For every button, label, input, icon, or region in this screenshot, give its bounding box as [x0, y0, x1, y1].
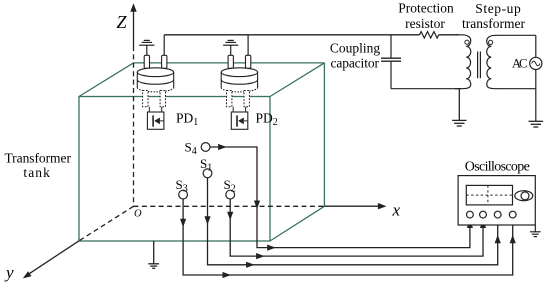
resistor R (protection) [420, 32, 439, 38]
wire: capacitor bottom lead [390, 62, 392, 89]
leg 2 of B1 (dotted) [160, 91, 165, 107]
oscilloscope screen [466, 185, 512, 205]
wire: capacitor top lead [390, 35, 392, 58]
leg 2 of B2 (dotted) [244, 91, 249, 107]
pin 2 of B2 [246, 55, 251, 68]
svg-text:Coupling: Coupling [330, 41, 381, 56]
svg-text:Oscilloscope: Oscilloscope [465, 160, 530, 175]
leg 1 of B2 (dotted) [227, 91, 232, 107]
primary winding [455, 35, 471, 47]
sensor S2 [226, 190, 235, 199]
ground (oscilloscope) [530, 232, 541, 237]
polarity dot primary [465, 40, 469, 44]
bushing B1 [137, 40, 173, 129]
wire: legs to PD2 box [232, 107, 234, 112]
wire: oscilloscope to ground [534, 225, 536, 232]
svg-text:Z: Z [117, 12, 128, 32]
pin 1 of B2 [228, 55, 233, 68]
tank ground [148, 241, 159, 268]
PD source PD1 [147, 112, 164, 129]
polarity dot secondary [489, 40, 493, 44]
ground (above bushing B1) [139, 40, 154, 55]
svg-text:Step-up: Step-up [475, 1, 521, 16]
x axis [134, 205, 380, 207]
oscilloscope connector ch2 [480, 211, 487, 218]
oscilloscope knob [515, 191, 533, 201]
svg-text:tank: tank [23, 165, 50, 180]
svg-text:x: x [392, 201, 401, 220]
bushing B2 [221, 40, 257, 129]
coupling capacitor C [381, 58, 401, 61]
pin 2 of B1 [162, 55, 167, 68]
wire: AC to ground [535, 70, 537, 122]
svg-text:Protection: Protection [398, 1, 454, 16]
wire: secondary top to AC [502, 34, 536, 36]
wire: S1 to oscilloscope ch3 [208, 178, 498, 265]
svg-text:AC: AC [512, 57, 527, 71]
svg-text:resistor: resistor [405, 16, 445, 31]
sensor S1 [203, 169, 212, 178]
y axis [29, 206, 134, 274]
oscilloscope U1 [458, 176, 535, 225]
wire: bushing 2 drop [247, 35, 249, 56]
oscilloscope connector ch3 [494, 211, 501, 218]
Z axis [133, 9, 135, 206]
leg 1 of B1 (dotted) [143, 91, 148, 107]
secondary winding [487, 35, 503, 46]
svg-text:y: y [4, 263, 14, 282]
wire: bushing 1 drop [163, 35, 165, 56]
ground (AC source) [529, 121, 544, 127]
pin 1 of B1 [144, 55, 149, 68]
sensor S4 [201, 143, 210, 152]
svg-text:capacitor: capacitor [330, 56, 379, 71]
wire: S2 to oscilloscope ch2 [230, 199, 483, 256]
bushing B2 body [221, 68, 257, 92]
transformer T1 (step-up) [455, 35, 503, 89]
oscilloscope connector ch1 [467, 211, 474, 218]
wire: top HV rail [164, 34, 419, 36]
ground (above bushing B2) [223, 40, 238, 55]
svg-text:Transformer: Transformer [4, 151, 71, 166]
AC source [530, 57, 542, 69]
core [477, 52, 479, 79]
wire: primary bottom rail [391, 88, 461, 90]
wire: S3 to oscilloscope ch4 [183, 199, 513, 275]
wire: secondary bottom rail [502, 88, 536, 90]
wire: S4 to oscilloscope ch1 [210, 147, 470, 248]
wire: rail resistor to transformer [439, 34, 459, 36]
svg-text:O: O [134, 209, 142, 220]
PD source PD2 [231, 112, 248, 129]
bushing B1 body [137, 68, 173, 92]
wire: legs to PD1 box [148, 107, 150, 112]
oscilloscope connector ch4 [509, 211, 516, 218]
ground (primary side) [452, 89, 466, 126]
transformer tank 3D box (green edges) [79, 63, 324, 241]
svg-text:transformer: transformer [462, 16, 525, 31]
sensor S3 [179, 190, 188, 199]
